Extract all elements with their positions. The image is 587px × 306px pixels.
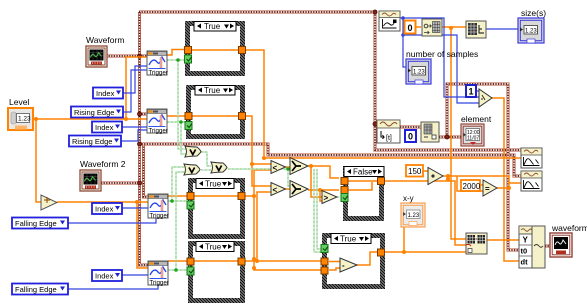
indicator element timestamp [461, 124, 484, 146]
negate node [41, 195, 57, 210]
enum Falling Edge 2 [12, 284, 68, 295]
subVI Trigger 4 [148, 261, 169, 287]
wire blue index1 to Trigger1 [123, 66, 147, 93]
wire orange 150 to multiply [423, 170, 428, 172]
enum Index 1 [93, 88, 123, 99]
svg-text:Falling Edge: Falling Edge [15, 285, 57, 294]
enum Index 3 [92, 203, 122, 214]
wire green Trigger2 boolean [167, 122, 186, 154]
wire orange False case out [385, 181, 466, 245]
constant 2000 [461, 180, 481, 191]
constant 0 (samples) [405, 21, 416, 34]
svg-text:size(s): size(s) [521, 8, 546, 18]
wire blue falling2 to Trigger4 [68, 285, 158, 289]
wire orange divide out to dt [492, 98, 519, 261]
wire orange lt2 to select2 [286, 188, 291, 190]
svg-text:True: True [204, 22, 221, 31]
svg-text:True: True [205, 243, 222, 252]
wire orange level to Trigger1 [126, 57, 147, 119]
wire blue samples from get-components [400, 18, 479, 97]
subVI Trigger 1 [147, 51, 168, 77]
enum Rising Edge 1 [71, 107, 123, 118]
svg-text:waveform: waveform [551, 223, 587, 233]
wire waveform trunk top horizontal [139, 11, 375, 14]
wire orange case4 out to comparator [245, 192, 321, 261]
wire waveform output to indicator [545, 245, 550, 248]
or gate 2 [184, 164, 200, 175]
wire orange case1 through [191, 49, 239, 51]
svg-text:0: 0 [408, 23, 413, 33]
wire green Trigger3 boolean [168, 167, 187, 201]
svg-text:Index: Index [96, 89, 115, 98]
svg-text:number of samples: number of samples [406, 49, 478, 59]
wire orange level main [33, 118, 126, 120]
terminal case3 left [187, 193, 194, 200]
selector terminal case2 [185, 122, 192, 130]
selector terminal case6 [341, 194, 348, 202]
svg-text:Rising Edge: Rising Edge [72, 137, 112, 146]
wire time element to indicator [439, 136, 462, 139]
case structure 2 (True) [186, 85, 245, 139]
wire orange False case through [348, 181, 377, 190]
equals node [483, 180, 497, 196]
terminal case1 right [239, 47, 246, 54]
wire blue rising1 to Trigger1 [122, 70, 147, 112]
comparator less-than 2 [271, 183, 286, 196]
svg-text:1.23: 1.23 [525, 29, 537, 35]
wire waveform into Trigger2 [139, 113, 147, 116]
svg-text:Index: Index [95, 123, 114, 132]
wire waveform long horizontal to right [139, 144, 521, 176]
wire orange level to Trigger4 [137, 202, 148, 268]
terminal case4 left [187, 258, 194, 265]
constant 1 [466, 85, 476, 97]
indicator size(s) [518, 18, 544, 43]
waveform graph terminal A [521, 148, 542, 168]
svg-text:1: 1 [469, 87, 474, 97]
enum Falling Edge 1 [12, 218, 68, 229]
wire orange case5 out to array node [385, 251, 466, 253]
wire orange Trigger2 out to case2 [167, 115, 186, 117]
or gate 3 [211, 162, 227, 173]
wire orange lt1 to select1 [286, 166, 291, 168]
array index node top [422, 19, 442, 36]
enum Index 2 [92, 122, 122, 133]
wire orange array column vertical [451, 27, 466, 239]
terminal case5 left upper [321, 258, 328, 265]
wire orange subtract out [357, 252, 378, 265]
wire orange index node to array size [442, 26, 466, 28]
wire waveform branch down right side [375, 12, 521, 150]
control Waveform graph icon [86, 46, 107, 67]
wire green to case5 selector [314, 169, 321, 252]
svg-text:Y: Y [523, 236, 529, 245]
svg-text:Rising Edge: Rising Edge [74, 108, 114, 117]
wire blue falling1 to Trigger3 [68, 218, 156, 223]
case structure 1 (True) [185, 21, 245, 76]
comparator less-than 1 [271, 161, 286, 174]
svg-text:x-y: x-y [403, 194, 414, 203]
selector terminal case5 [321, 245, 328, 253]
svg-text:Level: Level [9, 97, 29, 107]
wire orange case5 inner bottom [329, 268, 340, 270]
wire waveform2 trunk vertical [144, 144, 149, 197]
svg-text:Index: Index [95, 205, 114, 214]
terminal case2 right [239, 113, 246, 120]
multiply node [428, 168, 443, 185]
wire green or1 to or3 [201, 152, 211, 166]
wire orange compare feed vertical 2 [320, 190, 322, 201]
case structure 6 (False) [343, 166, 384, 221]
junction blue dots [401, 16, 405, 37]
wire orange 0 const to index node [416, 26, 421, 28]
wire orange Trigger4 out to case4 [168, 260, 188, 262]
subVI Trigger 2 [147, 109, 168, 135]
wire waveform into Trigger1 [106, 55, 147, 58]
waveform graph terminal B [521, 171, 542, 191]
array size node [466, 21, 486, 38]
wire orange case2 out to comparators [245, 116, 271, 186]
wire green or3 out to selects [228, 169, 290, 186]
svg-text:>: > [324, 194, 329, 203]
subVI Trigger 3 [148, 194, 169, 220]
wire orange Trigger1 out to case1 [167, 50, 185, 56]
wire orange case2 through [192, 115, 239, 117]
svg-text:<: < [273, 164, 278, 173]
wire orange multiply out [443, 176, 521, 191]
terminal case5 right [378, 249, 385, 256]
indicator waveform output [550, 233, 572, 257]
wire orange select1 out to False case [308, 166, 339, 178]
wire orange 2000 to equals [480, 184, 483, 186]
build waveform node [519, 226, 545, 268]
enum Rising Edge 2 [69, 136, 121, 147]
select node 1 [290, 158, 308, 175]
case structure 4 (True) [188, 241, 245, 303]
wire orange select2 out to False case [308, 189, 339, 191]
constant 150 [406, 165, 423, 177]
wire blue index2 to Trigger2 [122, 126, 147, 128]
svg-text:True: True [205, 180, 222, 189]
wire orange level branch down [36, 119, 41, 202]
get waveform components node top right [379, 11, 400, 31]
wire orange case1 out to graph A [245, 50, 521, 158]
wire time array to index node [400, 126, 421, 129]
case structure 3 (True) [188, 178, 245, 239]
wire blue index3 to Trigger3 [121, 207, 148, 209]
svg-text:Waveform: Waveform [86, 35, 124, 45]
svg-text:-: - [342, 261, 345, 270]
terminal case6 right [378, 178, 385, 185]
svg-text:[t]: [t] [386, 135, 392, 142]
svg-text:t0: t0 [521, 247, 528, 256]
selector terminal case1 [185, 55, 192, 63]
get waveform time array node [377, 120, 400, 143]
wire waveform2 from icon [101, 182, 143, 185]
svg-text:2000: 2000 [463, 182, 481, 191]
svg-text:=: = [485, 185, 490, 194]
wire orange level to Trigger3 [137, 201, 148, 203]
svg-text:Waveform 2: Waveform 2 [80, 159, 126, 169]
svg-text:True: True [340, 235, 357, 244]
wire time element branch to t0 [447, 84, 519, 250]
indicator x-y [401, 203, 425, 227]
wire green or2 to or3 [201, 169, 211, 171]
indicator number of samples [406, 59, 431, 84]
select node 2 [290, 181, 308, 198]
or gate 1 [185, 146, 201, 157]
wire waveform stub into time-array node [375, 123, 378, 126]
wire blue branch to samples indicator [403, 35, 406, 67]
wire orange case5 inner top [329, 261, 342, 263]
svg-text:11/07: 11/07 [467, 136, 479, 142]
control Level numeric [8, 108, 33, 130]
terminal case1 left [185, 47, 192, 54]
svg-text:dt: dt [521, 258, 529, 267]
wire blue lower branch [403, 18, 479, 103]
case structure 5 (True, bottom middle) [322, 233, 385, 289]
svg-text:1.23: 1.23 [18, 116, 31, 123]
terminal case5 left lower [321, 267, 328, 274]
wire blue index4 to Trigger4 [121, 274, 148, 276]
svg-text:Index: Index [95, 272, 114, 281]
wire blue rising2 to Trigger2 [120, 130, 147, 141]
wire green Trigger1 boolean [167, 60, 186, 149]
divide node [479, 89, 492, 107]
constant 0 (index) [405, 130, 416, 142]
svg-text:1.23: 1.23 [408, 213, 420, 219]
comparator greater-equal [322, 191, 337, 204]
decimate array node bottom [466, 233, 487, 254]
svg-text:element: element [461, 114, 492, 124]
selector terminal case3 [187, 201, 194, 209]
wire orange array node to Y [487, 239, 519, 241]
terminal case6 left lower [341, 187, 348, 194]
wire blue const 1 to divide [476, 90, 479, 92]
terminal case4 right [238, 258, 245, 265]
terminal case3 right [238, 193, 245, 200]
wire orange compare feed vertical 1 [311, 166, 322, 197]
control Waveform 2 graph icon [80, 170, 101, 191]
selector terminal case4 [187, 267, 194, 275]
svg-text:1.23: 1.23 [413, 70, 425, 76]
junction waveform wires [138, 10, 450, 185]
wire orange case3 out trunk [245, 170, 321, 270]
terminal case2 left [185, 113, 192, 120]
svg-text:150: 150 [408, 167, 422, 176]
svg-text:False: False [353, 168, 373, 177]
svg-text:<: < [273, 186, 278, 195]
svg-text:True: True [204, 86, 221, 95]
wire orange branch to x-y [403, 227, 405, 252]
wire green Trigger4 boolean [168, 172, 187, 270]
wire blue array size to size(s) [486, 28, 518, 30]
wire waveform trunk vertical left [140, 12, 149, 265]
svg-text:0: 0 [408, 132, 413, 142]
junction orange dots [34, 26, 511, 270]
wire orange case4 through [194, 260, 238, 262]
wire green greater out to False selector [337, 196, 340, 198]
wire orange Trigger3 out to case3 [168, 195, 188, 197]
subtract node in case5 [340, 258, 357, 272]
index array node (element) [421, 122, 439, 142]
wire orange level to Trigger2 [126, 118, 147, 120]
wire orange negate out [57, 201, 137, 203]
svg-text:Falling Edge: Falling Edge [15, 219, 57, 228]
terminal case6 left upper [341, 178, 348, 185]
enum Index 4 [92, 270, 122, 281]
wire orange case3 through [194, 195, 238, 197]
junction green dots [170, 58, 290, 272]
